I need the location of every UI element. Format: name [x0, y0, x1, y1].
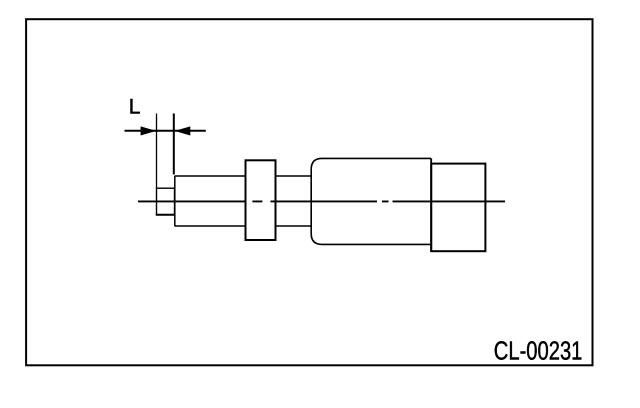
svg-text:CL-00231: CL-00231 — [494, 336, 583, 365]
svg-text:L: L — [129, 95, 141, 118]
